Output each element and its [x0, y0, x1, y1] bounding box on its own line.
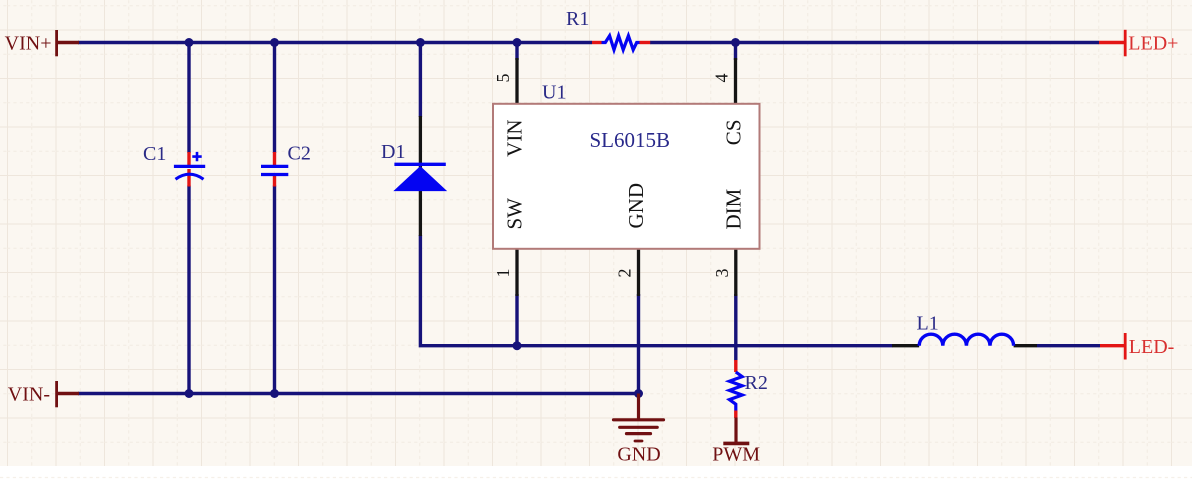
junction SW pin1: [513, 341, 522, 350]
wire C2 lower branch: [273, 186, 276, 394]
svg-text:CS: CS: [721, 120, 745, 146]
svg-text:1: 1: [493, 269, 513, 278]
svg-text:C2: C2: [288, 143, 311, 165]
power port PWM bar: [723, 442, 749, 446]
inductor L1 left pin: [892, 344, 919, 347]
power port GND bar2: [620, 426, 658, 429]
svg-text:PWM: PWM: [712, 443, 760, 465]
power port GND bar3: [627, 432, 651, 435]
power port GND bar1: [614, 418, 664, 421]
junction top D1: [416, 38, 425, 47]
svg-text:R2: R2: [745, 372, 768, 394]
diode D1 pin through: [419, 116, 422, 236]
capacitor C1 red pin stub top: [187, 152, 190, 165]
capacitor C1 red pin stub bottom: [187, 169, 190, 187]
port VIN+ bar: [55, 30, 58, 56]
resistor R1 zigzag: [602, 36, 640, 50]
inductor L1 right pin: [1014, 344, 1037, 347]
resistor R2 red pin stub bottom: [734, 411, 737, 419]
wire pin1 to SW net: [515, 294, 518, 346]
svg-text:DIM: DIM: [721, 188, 745, 229]
svg-text:VIN: VIN: [503, 120, 527, 157]
resistor R1 red pin stub right: [640, 41, 651, 44]
capacitor C2 bottom plate: [261, 173, 288, 176]
svg-text:SW: SW: [503, 198, 527, 230]
svg-text:VIN-: VIN-: [8, 384, 50, 406]
junction top pin5: [513, 38, 522, 47]
wire pin4 stub: [734, 43, 737, 61]
svg-text:D1: D1: [381, 141, 405, 163]
svg-text:LED-: LED-: [1129, 336, 1175, 358]
inductor L1 coil: [919, 334, 1013, 346]
capacitor C2 red pin stub bottom: [273, 176, 276, 187]
sheet edge dashed line: [0, 477, 1192, 479]
pin U1.3: [734, 249, 737, 296]
power port GND stem: [637, 394, 640, 421]
pin U1.2: [637, 249, 640, 296]
wire D1 upper branch: [419, 43, 422, 118]
capacitor C1 plus sign: [192, 152, 201, 161]
svg-text:4: 4: [712, 74, 732, 83]
svg-text:5: 5: [493, 74, 513, 83]
svg-text:C1: C1: [143, 143, 166, 165]
wire D1 lower branch to SW net corner: [420, 235, 892, 346]
port VIN+ stub: [57, 41, 79, 44]
pin U1.1: [515, 249, 518, 296]
port LED- stub: [1100, 344, 1125, 347]
resistor R2 zigzag: [729, 372, 742, 411]
junction top pin4: [731, 38, 740, 47]
svg-text:3: 3: [712, 269, 732, 278]
svg-text:U1: U1: [542, 82, 566, 104]
port VIN- stub: [57, 392, 79, 395]
resistor R1 red pin stub left: [592, 41, 602, 44]
svg-text:L1: L1: [917, 313, 939, 335]
capacitor C2 top plate: [261, 165, 288, 168]
capacitor C2 red pin stub top: [273, 152, 276, 165]
power port GND bar4: [635, 440, 642, 443]
wire VIN+ top rail: [78, 41, 592, 44]
junction bottom C1: [185, 389, 194, 398]
op IC body U1: [493, 104, 760, 249]
svg-text:SL6015B: SL6015B: [589, 128, 670, 152]
svg-text:LED+: LED+: [1128, 33, 1178, 55]
port VIN- bar: [55, 381, 58, 407]
wire pin5 stub: [515, 43, 518, 61]
wire VIN- bottom rail: [78, 392, 639, 395]
svg-text:GND: GND: [617, 443, 660, 465]
resistor R2 red pin stub top: [734, 360, 737, 372]
pin U1.5: [515, 58, 518, 104]
wire C2 upper branch: [273, 43, 276, 154]
power port PWM stem: [734, 418, 737, 443]
port LED+ stub: [1099, 41, 1125, 44]
diode D1 triangle: [395, 167, 446, 191]
pin U1.4: [734, 58, 737, 104]
capacitor C1 top plate: [174, 165, 205, 168]
wire pin2 to GND junction: [637, 294, 640, 394]
svg-text:GND: GND: [624, 183, 648, 229]
port LED- bar: [1124, 333, 1127, 360]
capacitor C1 curved plate: [176, 174, 204, 179]
wire top rail right of R1: [650, 41, 1099, 44]
junction bottom C2: [270, 389, 279, 398]
junction bottom GND: [634, 389, 643, 398]
wire C1 upper branch: [187, 43, 190, 154]
wire pin3 to R2: [734, 294, 737, 361]
svg-text:2: 2: [615, 269, 635, 278]
svg-text:R1: R1: [566, 8, 589, 30]
wire C1 lower branch: [187, 186, 190, 394]
junction top C2: [270, 38, 279, 47]
svg-text:VIN+: VIN+: [5, 33, 52, 55]
port LED+ bar: [1124, 30, 1127, 57]
diode D1 cathode bar: [394, 163, 445, 166]
junction top C1: [185, 38, 194, 47]
wire SW net right of L1: [1037, 344, 1100, 347]
